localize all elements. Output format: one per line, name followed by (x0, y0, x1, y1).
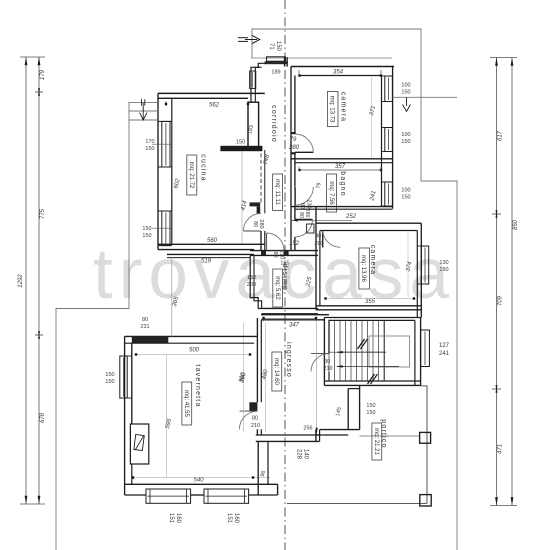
svg-text:562: 562 (209, 103, 220, 109)
svg-text:150: 150 (366, 410, 375, 416)
camera2 right wall (420, 223, 422, 317)
camera1 mq box (327, 92, 338, 127)
camera1 window 2 (385, 128, 393, 152)
dimension line left outer 1292 (25, 57, 27, 504)
bagno bottom wall (291, 206, 393, 208)
svg-text:150: 150 (142, 233, 151, 239)
svg-text:678: 678 (40, 412, 46, 423)
svg-text:850: 850 (513, 219, 519, 230)
tavernetta bottom wall (125, 483, 278, 485)
dimension line right outer 850 (511, 58, 513, 506)
cucina door arc (243, 213, 261, 231)
cucina window 1 (162, 121, 170, 167)
cucina window 2 (162, 211, 170, 246)
svg-text:ingresso: ingresso (285, 342, 292, 378)
tavernetta mq box (182, 382, 192, 425)
portico NW jog (315, 430, 317, 442)
wall below cucina (167, 253, 254, 255)
svg-text:160: 160 (175, 513, 181, 524)
svg-text:280: 280 (288, 145, 300, 151)
portico stub wall (347, 389, 349, 430)
tavernetta left wall (124, 336, 126, 495)
vent symbol (129, 101, 158, 103)
disimp mq box (273, 269, 283, 307)
tavernetta top wall (125, 335, 258, 337)
svg-text:280: 280 (314, 241, 323, 247)
camera1 door (295, 151, 313, 153)
camera2 top wall (316, 222, 421, 224)
cucina dim 414 (241, 151, 243, 244)
svg-text:150: 150 (401, 139, 410, 145)
svg-text:80: 80 (315, 234, 321, 240)
bagno window (385, 182, 393, 206)
stairs landing outline (369, 336, 410, 367)
ingresso mq box (272, 352, 282, 391)
svg-text:150: 150 (236, 140, 245, 146)
stairwell right wall (420, 318, 422, 386)
camera1 bottom wall (291, 158, 393, 160)
bagno mq box (327, 174, 337, 212)
hallway door (295, 218, 312, 220)
svg-text:79: 79 (290, 137, 297, 143)
svg-text:709: 709 (498, 295, 504, 306)
svg-text:mq: 7.56: mq: 7.56 (328, 181, 334, 205)
camera1 window 1 (385, 76, 393, 102)
vestibule left wall (251, 63, 267, 102)
stairs break marks (358, 339, 365, 349)
svg-text:mq: 21.21: mq: 21.21 (373, 428, 379, 455)
svg-text:151: 151 (168, 513, 174, 524)
svg-text:tavernetta: tavernetta (194, 364, 201, 407)
svg-text:280: 280 (258, 219, 264, 228)
portico dim line (316, 322, 318, 431)
svg-text:127: 127 (439, 343, 450, 349)
svg-text:560: 560 (207, 238, 218, 244)
camera2 mq box (359, 248, 370, 289)
svg-text:347: 347 (289, 323, 300, 329)
svg-text:100: 100 (401, 132, 410, 138)
tavernetta window S2 (204, 489, 249, 503)
svg-text:mq: 11.11: mq: 11.11 (274, 179, 280, 205)
svg-text:241: 241 (439, 351, 450, 357)
svg-text:80: 80 (142, 317, 148, 323)
disimp bottom wall (258, 307, 318, 309)
stairwell left wall (323, 318, 325, 386)
ingresso bottom wall (256, 434, 320, 436)
eaves outline (252, 29, 457, 550)
svg-text:210: 210 (279, 250, 285, 259)
svg-text:80: 80 (252, 416, 258, 422)
svg-text:775: 775 (40, 208, 46, 219)
ingresso-tavernetta wall (256, 318, 258, 402)
svg-text:355: 355 (365, 299, 376, 305)
corridoio left wall upper (cucina right wall) (260, 153, 262, 202)
svg-text:150: 150 (366, 403, 375, 409)
svg-text:corridoio: corridoio (270, 105, 277, 143)
svg-text:200: 200 (247, 282, 256, 288)
stair window (421, 330, 430, 367)
fireplace (130, 424, 148, 464)
svg-text:152: 152 (289, 241, 300, 247)
svg-text:1292: 1292 (18, 274, 24, 288)
svg-text:617: 617 (498, 130, 504, 141)
corridoio bottom wall (250, 250, 318, 252)
stairwell bottom wall (324, 380, 420, 382)
svg-text:mq: 13.73: mq: 13.73 (329, 96, 335, 123)
camera2 bottom wall (316, 305, 421, 307)
svg-text:150: 150 (401, 90, 410, 96)
svg-text:210: 210 (323, 366, 332, 372)
svg-text:179: 179 (40, 69, 46, 80)
portico pillar 1 (420, 432, 431, 443)
disimp left wall (250, 256, 258, 309)
bagno door (294, 187, 296, 205)
ingresso top wall (261, 314, 329, 316)
svg-text:150: 150 (439, 267, 448, 273)
svg-text:152: 152 (247, 275, 256, 281)
stairs up arrow 1 (337, 351, 386, 353)
svg-text:mq: 13.96: mq: 13.96 (360, 255, 366, 282)
dimension line right inner 617/709/471 (496, 58, 498, 506)
svg-text:357: 357 (335, 164, 346, 170)
corridoio mq box (273, 174, 283, 211)
svg-text:80: 80 (272, 252, 278, 258)
camera1 top wall (291, 66, 394, 68)
tavernetta window left (120, 356, 127, 398)
svg-text:mq: 5.62: mq: 5.62 (274, 276, 280, 300)
vestibule right wall (284, 57, 286, 66)
centerline axis (284, 0, 286, 550)
svg-text:256: 256 (303, 426, 312, 432)
cucina bottom wall (158, 243, 265, 245)
svg-text:100: 100 (401, 83, 410, 89)
camera block left wall (corridoio right wall) (290, 67, 292, 251)
portico boundary (287, 502, 427, 504)
svg-text:210: 210 (251, 423, 260, 429)
camera2 door (322, 231, 324, 248)
svg-text:150: 150 (401, 195, 410, 201)
svg-text:231: 231 (140, 324, 149, 330)
svg-text:150: 150 (145, 146, 154, 152)
entrance arrow (238, 37, 248, 39)
svg-text:trovacasa: trovacasa (93, 235, 455, 314)
hallway dim line (291, 219, 352, 221)
svg-text:71: 71 (268, 43, 274, 50)
svg-text:150: 150 (275, 41, 281, 52)
portico pillar 2 (420, 495, 431, 506)
svg-text:130: 130 (439, 260, 448, 266)
portico top wall (320, 429, 360, 431)
svg-text:portico: portico (380, 419, 387, 448)
corridoio left wall lower (260, 231, 262, 251)
svg-text:mq: 41.55: mq: 41.55 (183, 390, 189, 417)
roof drain arrow (393, 96, 457, 98)
svg-text:519: 519 (201, 259, 212, 265)
svg-text:160: 160 (233, 513, 239, 524)
threshold top door (267, 57, 286, 61)
camera2 left wall (315, 207, 317, 310)
cucina door stub (250, 202, 261, 206)
dimension line left inner 179/775/678 (38, 57, 40, 504)
svg-text:170: 170 (145, 139, 154, 145)
svg-text:280: 280 (304, 208, 310, 217)
svg-text:189: 189 (271, 70, 280, 76)
svg-text:cucina: cucina (200, 154, 207, 181)
tavernetta window S1 (146, 489, 191, 503)
svg-text:mq: 14.60: mq: 14.60 (273, 358, 279, 385)
tavernetta door (239, 411, 257, 429)
vestibule window (250, 71, 256, 89)
svg-text:228: 228 (296, 449, 302, 460)
svg-text:150: 150 (105, 379, 114, 385)
property line left (56, 102, 129, 550)
stairs treads (328, 320, 330, 381)
svg-text:150: 150 (142, 226, 151, 232)
svg-text:471: 471 (498, 444, 504, 454)
cucina pier (248, 102, 259, 149)
svg-text:540: 540 (193, 478, 204, 484)
cucina counter (220, 146, 262, 151)
cucina top wall (158, 92, 265, 94)
camera1 right wall (392, 67, 394, 209)
svg-text:354: 354 (333, 70, 344, 76)
svg-text:151: 151 (226, 513, 232, 524)
portico mq box (372, 423, 382, 460)
cucina left wall (157, 93, 159, 249)
terrace step line (251, 57, 392, 59)
stairwell door (311, 354, 329, 372)
svg-text:252: 252 (345, 214, 357, 220)
cucina mq box (187, 155, 197, 195)
svg-text:80: 80 (252, 221, 258, 227)
svg-text:mq: 21.72: mq: 21.72 (188, 162, 194, 189)
svg-text:500: 500 (189, 348, 200, 354)
svg-text:165: 165 (280, 261, 289, 267)
svg-text:camera: camera (340, 92, 347, 123)
tavernetta SE wall (257, 441, 259, 495)
hallway shaft box (307, 224, 314, 233)
svg-text:bagno: bagno (339, 171, 346, 196)
stairwell top wall (324, 317, 420, 319)
stairs up arrow 2 (337, 365, 399, 367)
svg-text:100: 100 (401, 188, 410, 194)
svg-text:140: 140 (303, 449, 309, 460)
disimp door arc (267, 233, 284, 250)
svg-text:150: 150 (105, 372, 114, 378)
svg-text:80: 80 (298, 212, 304, 218)
camera2 window (421, 246, 428, 284)
